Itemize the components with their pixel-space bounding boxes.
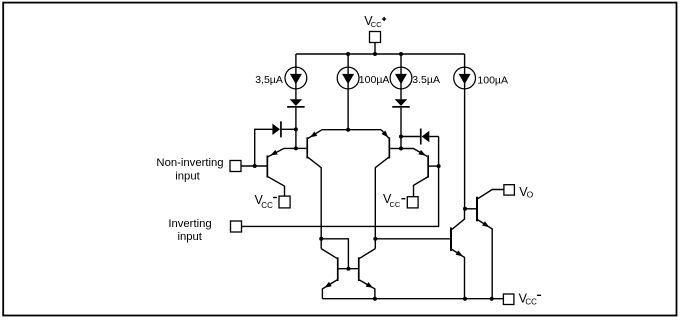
svg-text:3.5µA: 3.5µA <box>412 74 440 86</box>
svg-text:CC: CC <box>390 200 401 209</box>
svg-text:CC: CC <box>525 298 537 307</box>
svg-text:input: input <box>177 231 202 243</box>
svg-text:100µA: 100µA <box>477 74 508 86</box>
svg-text:input: input <box>175 171 200 183</box>
svg-text:O: O <box>527 190 534 200</box>
svg-text:3,5µA: 3,5µA <box>255 74 283 86</box>
svg-text:100µA: 100µA <box>359 74 390 86</box>
svg-text:CC: CC <box>261 201 273 210</box>
svg-text:CC: CC <box>371 20 382 29</box>
svg-text:Non-inverting: Non-inverting <box>156 157 223 169</box>
svg-text:Inverting: Inverting <box>168 218 211 230</box>
